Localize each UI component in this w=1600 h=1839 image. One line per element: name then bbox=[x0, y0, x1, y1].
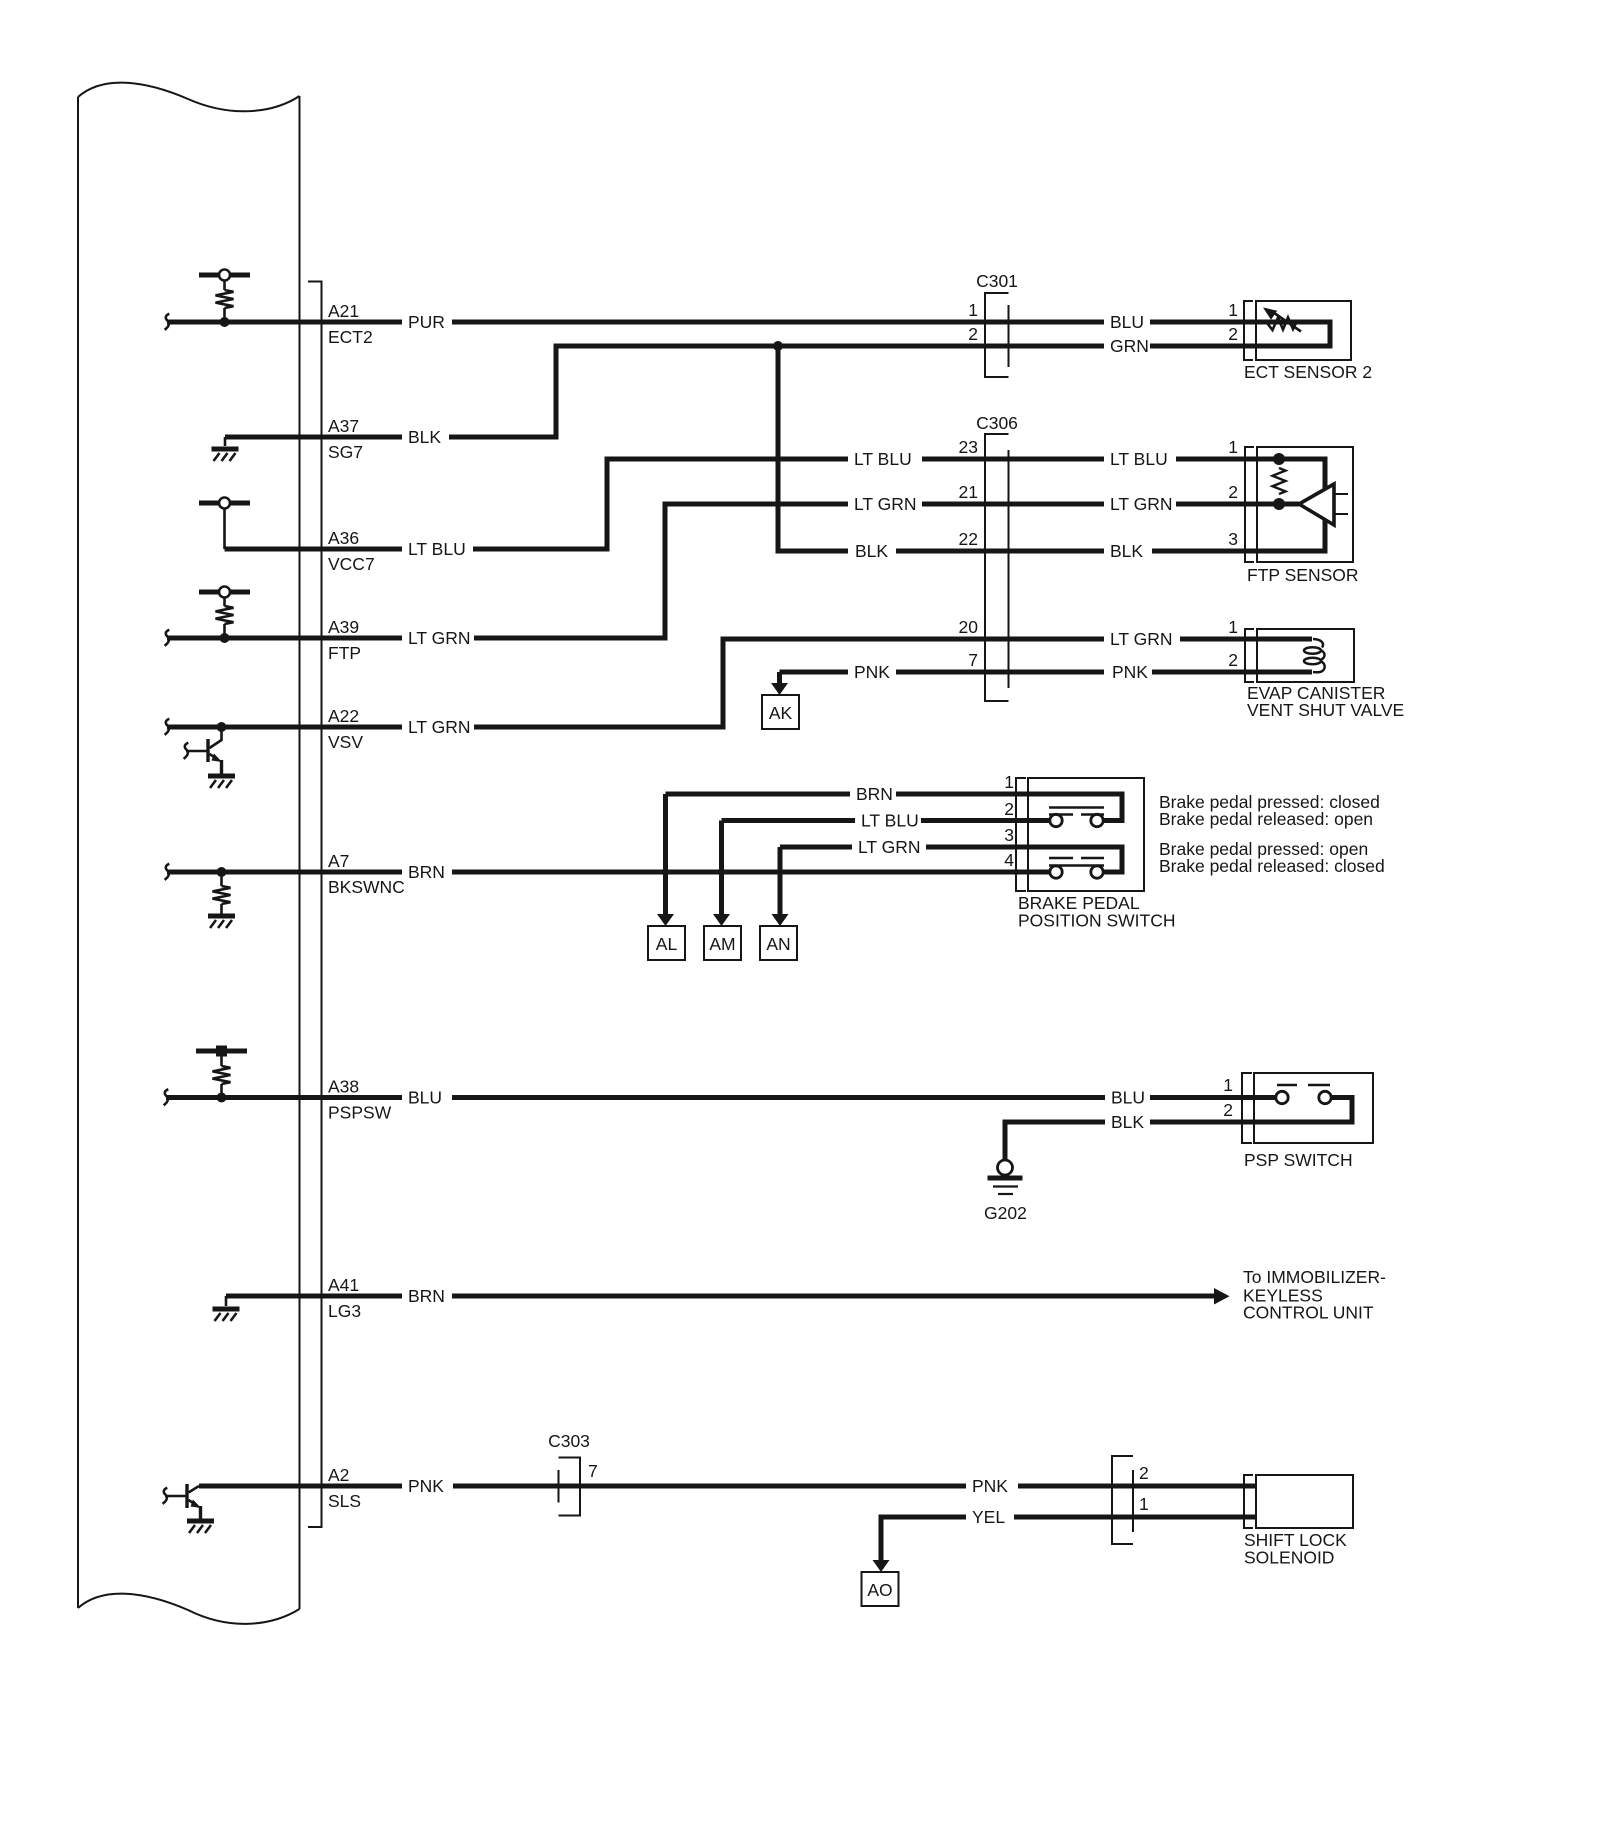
svg-text:C301: C301 bbox=[976, 271, 1018, 291]
svg-text:POSITION SWITCH: POSITION SWITCH bbox=[1018, 911, 1176, 931]
wire PNK: C306 pin 7 to reference AK; and EVAP valve pin 2 bbox=[780, 670, 1257, 675]
svg-text:2: 2 bbox=[1139, 1463, 1149, 1483]
svg-text:LT BLU: LT BLU bbox=[408, 539, 466, 559]
svg-text:BLU: BLU bbox=[1110, 312, 1144, 332]
svg-text:2: 2 bbox=[1228, 650, 1238, 670]
svg-text:PSP SWITCH: PSP SWITCH bbox=[1244, 1150, 1353, 1170]
svg-text:VSV: VSV bbox=[328, 732, 363, 752]
wire A21 PUR: ECM A21 to C301 pin 1 bbox=[167, 320, 1256, 325]
ground (A2 emitter) bbox=[187, 1521, 214, 1533]
svg-text:PNK: PNK bbox=[854, 662, 890, 682]
svg-text:C306: C306 bbox=[976, 413, 1018, 433]
svg-text:VENT SHUT VALVE: VENT SHUT VALVE bbox=[1247, 700, 1404, 720]
svg-text:Brake pedal released: open: Brake pedal released: open bbox=[1159, 809, 1373, 829]
wire LT GRN: brake switch pin 3 to reference AN bbox=[780, 845, 1028, 850]
svg-text:2: 2 bbox=[1228, 482, 1238, 502]
svg-text:SG7: SG7 bbox=[328, 442, 363, 462]
wire GRN: junction to C301 pin 2 and on to ECT sensor pin 2 bbox=[778, 344, 1256, 349]
arrow down to AN bbox=[772, 847, 789, 926]
svg-text:3: 3 bbox=[1004, 825, 1014, 845]
continuation squiggle A22 wire end bbox=[165, 719, 170, 735]
ECM pin A21/ECT2 label bbox=[328, 301, 373, 347]
svg-text:Brake pedal released: closed: Brake pedal released: closed bbox=[1159, 856, 1385, 876]
svg-text:YEL: YEL bbox=[972, 1507, 1005, 1527]
continuation squiggle A7 wire end bbox=[165, 864, 170, 880]
ground G202 bbox=[988, 1160, 1023, 1194]
svg-text:LT GRN: LT GRN bbox=[1110, 629, 1173, 649]
svg-text:2: 2 bbox=[968, 324, 978, 344]
ECM connector pin-header bracket bbox=[308, 282, 322, 1528]
svg-text:BKSWNC: BKSWNC bbox=[328, 877, 405, 897]
svg-text:BLU: BLU bbox=[408, 1088, 442, 1108]
svg-text:PNK: PNK bbox=[408, 1476, 444, 1496]
svg-text:1: 1 bbox=[1228, 437, 1238, 457]
svg-text:BLK: BLK bbox=[1110, 541, 1143, 561]
svg-text:BLK: BLK bbox=[855, 541, 888, 561]
continuation squiggle A38 wire end bbox=[164, 1089, 169, 1105]
svg-text:A38: A38 bbox=[328, 1077, 359, 1097]
svg-text:A37: A37 bbox=[328, 416, 359, 436]
svg-text:SLS: SLS bbox=[328, 1491, 361, 1511]
svg-text:21: 21 bbox=[959, 482, 978, 502]
ground symbol at pin A37 bbox=[224, 437, 227, 446]
svg-text:1: 1 bbox=[1228, 300, 1238, 320]
svg-text:GRN: GRN bbox=[1110, 336, 1149, 356]
svg-text:AN: AN bbox=[766, 934, 790, 954]
svg-text:A7: A7 bbox=[328, 851, 349, 871]
arrow down to AL bbox=[657, 794, 674, 926]
junction dot A22 bbox=[217, 722, 227, 732]
PSP SWITCH bbox=[1242, 1073, 1373, 1143]
svg-text:BLU: BLU bbox=[1111, 1088, 1145, 1108]
svg-text:BRN: BRN bbox=[408, 1286, 445, 1306]
wire A36 LT BLU: ECM A36 to C306 pin 23 and FTP sensor pin 1 bbox=[225, 459, 1257, 549]
transistor Q (driver) at pin A22 bbox=[186, 727, 222, 774]
junction dot A7 bbox=[217, 867, 227, 877]
svg-text:VCC7: VCC7 bbox=[328, 554, 375, 574]
svg-text:20: 20 bbox=[959, 617, 979, 637]
wire BLK: junction down to C306 pin 22 and on to FTP sensor pin 3 bbox=[778, 346, 1256, 551]
svg-text:A41: A41 bbox=[328, 1275, 359, 1295]
resistor at pin A21 bbox=[216, 281, 234, 319]
node AM (off-page reference) bbox=[704, 926, 741, 960]
svg-text:BLK: BLK bbox=[408, 427, 441, 447]
arrow down to AM bbox=[713, 821, 730, 927]
svg-text:23: 23 bbox=[959, 437, 978, 457]
ECM/PCM module box (torn-edge outline) bbox=[78, 83, 300, 1624]
svg-text:1: 1 bbox=[1004, 772, 1014, 792]
svg-text:A2: A2 bbox=[328, 1465, 349, 1485]
node AL (off-page reference) bbox=[648, 926, 685, 960]
junction dot A38 bbox=[217, 1093, 227, 1103]
svg-text:AO: AO bbox=[867, 1580, 892, 1600]
node AK (off-page reference) bbox=[762, 695, 799, 729]
continuation squiggle at Q base (A2) bbox=[163, 1488, 168, 1504]
svg-text:G202: G202 bbox=[984, 1203, 1027, 1223]
ECM pin A38/PSPSW label bbox=[328, 1077, 392, 1123]
svg-text:FTP: FTP bbox=[328, 643, 361, 663]
svg-text:CONTROL UNIT: CONTROL UNIT bbox=[1243, 1303, 1374, 1323]
svg-text:4: 4 bbox=[1004, 850, 1014, 870]
BRAKE PEDAL POSITION SWITCH bbox=[1016, 778, 1144, 891]
svg-text:AL: AL bbox=[656, 934, 678, 954]
svg-text:LT GRN: LT GRN bbox=[408, 717, 471, 737]
svg-text:BRN: BRN bbox=[408, 862, 445, 882]
svg-text:7: 7 bbox=[968, 650, 978, 670]
wire A7 BRN: ECM A7 to brake pedal position switch pin 4 bbox=[167, 870, 1028, 875]
transistor Q (driver) at pin A2 bbox=[165, 1484, 201, 1519]
svg-text:SOLENOID: SOLENOID bbox=[1244, 1548, 1334, 1568]
EVAP CANISTER VENT SHUT VALVE (solenoid coil) bbox=[1245, 629, 1354, 682]
svg-text:22: 22 bbox=[959, 529, 978, 549]
wire A37 BLK: ECM A37 up to GRN row bbox=[225, 346, 780, 437]
svg-text:LT GRN: LT GRN bbox=[408, 628, 471, 648]
svg-text:1: 1 bbox=[1139, 1494, 1149, 1514]
svg-text:A36: A36 bbox=[328, 528, 359, 548]
ground (A22 emitter) bbox=[208, 776, 235, 788]
svg-text:To IMMOBILIZER-: To IMMOBILIZER- bbox=[1243, 1267, 1386, 1287]
pull-up supply for pin A39 (bar with open circle) bbox=[199, 587, 250, 598]
svg-text:LT BLU: LT BLU bbox=[861, 811, 919, 831]
svg-text:2: 2 bbox=[1223, 1100, 1233, 1120]
svg-text:LG3: LG3 bbox=[328, 1301, 361, 1321]
svg-text:ECT2: ECT2 bbox=[328, 327, 373, 347]
wire YEL: solenoid connector pin 1 to reference AO bbox=[881, 1517, 1256, 1562]
svg-text:PUR: PUR bbox=[408, 312, 445, 332]
wire BRN: brake switch pin 1 to reference AL bbox=[666, 792, 1029, 797]
ECM pin A36/VCC7 label bbox=[328, 528, 375, 574]
arrow down to AO bbox=[873, 1560, 890, 1572]
svg-text:AK: AK bbox=[769, 703, 793, 723]
svg-text:1: 1 bbox=[968, 300, 978, 320]
resistor at pin A38 bbox=[213, 1057, 231, 1094]
svg-text:LT GRN: LT GRN bbox=[858, 837, 921, 857]
ECM pin A39/FTP label bbox=[328, 617, 361, 663]
junction dot A39 bbox=[220, 633, 230, 643]
wire A39 LT GRN: ECM A39 to C306 pin 21 and FTP sensor pin 2 bbox=[167, 504, 1256, 638]
svg-text:PNK: PNK bbox=[972, 1476, 1008, 1496]
ECM pin A37/SG7 label bbox=[328, 416, 363, 462]
svg-text:A21: A21 bbox=[328, 301, 359, 321]
resistor at pin A39 bbox=[216, 598, 234, 635]
svg-text:LT BLU: LT BLU bbox=[854, 449, 912, 469]
FTP SENSOR bbox=[1245, 447, 1353, 562]
ECM pin A2/SLS label bbox=[328, 1465, 361, 1511]
supply for pin A36 (bar with open circle) bbox=[199, 498, 250, 550]
ground (SG7) bbox=[212, 449, 239, 461]
ECT SENSOR 2 bbox=[1244, 301, 1351, 360]
continuation squiggle at Q base (A22) bbox=[184, 743, 189, 759]
arrow right to immobilizer bbox=[1214, 1288, 1230, 1305]
svg-text:LT BLU: LT BLU bbox=[1110, 449, 1168, 469]
wire A38 BLU: ECM A38 to PSP switch pin 1 bbox=[166, 1095, 1254, 1100]
svg-text:BLK: BLK bbox=[1111, 1112, 1144, 1132]
svg-text:A39: A39 bbox=[328, 617, 359, 637]
svg-text:7: 7 bbox=[588, 1461, 598, 1481]
ground (LG3) bbox=[213, 1309, 240, 1321]
connector C301 bbox=[976, 271, 1018, 377]
ground symbol at pin A41 bbox=[225, 1296, 228, 1306]
ECM pin A7/BKSWNC label bbox=[328, 851, 405, 897]
svg-text:2: 2 bbox=[1004, 799, 1014, 819]
svg-text:PNK: PNK bbox=[1112, 662, 1148, 682]
supply for pin A38 (bar with filled square) bbox=[196, 1046, 247, 1057]
node AN (off-page reference) bbox=[760, 926, 797, 960]
svg-text:A22: A22 bbox=[328, 706, 359, 726]
svg-text:PSPSW: PSPSW bbox=[328, 1103, 392, 1123]
continuation squiggle A21 wire end bbox=[165, 314, 170, 330]
wire LT BLU: brake switch pin 2 to reference AM bbox=[722, 818, 1029, 823]
svg-text:2: 2 bbox=[1228, 324, 1238, 344]
svg-text:3: 3 bbox=[1228, 529, 1238, 549]
svg-text:LT GRN: LT GRN bbox=[1110, 494, 1173, 514]
ECM pin A22/VSV label bbox=[328, 706, 363, 752]
connector C303 bbox=[548, 1431, 590, 1516]
wire A2 PNK: ECM A2 through C303 to shift lock solenoid pin 2 bbox=[199, 1484, 1256, 1489]
svg-text:ECT SENSOR 2: ECT SENSOR 2 bbox=[1244, 362, 1372, 382]
pull-up supply for pin A21 (bar with open circle) bbox=[199, 270, 250, 281]
svg-text:BRN: BRN bbox=[856, 784, 893, 804]
node: junction GRN/BLK wires bbox=[773, 341, 783, 351]
svg-text:C303: C303 bbox=[548, 1431, 590, 1451]
pull-down resistor at pin A7 bbox=[213, 872, 231, 914]
wire A22 LT GRN: ECM A22 to C306 pin 20 and EVAP valve pin 1 bbox=[167, 639, 1256, 727]
ECM pin A41/LG3 label bbox=[328, 1275, 361, 1321]
connector C306 bbox=[976, 413, 1018, 701]
svg-text:1: 1 bbox=[1228, 617, 1238, 637]
ground (A7 resistor) bbox=[208, 916, 235, 928]
svg-text:LT GRN: LT GRN bbox=[854, 494, 917, 514]
svg-text:1: 1 bbox=[1223, 1075, 1233, 1095]
arrow down to AK bbox=[771, 672, 788, 695]
svg-text:AM: AM bbox=[709, 934, 735, 954]
junction dot A21 bbox=[220, 317, 230, 327]
SHIFT LOCK SOLENOID bbox=[1244, 1475, 1353, 1528]
wire BLK: PSP switch pin 2 to ground G202 bbox=[1005, 1122, 1254, 1160]
shift lock solenoid inline connector bbox=[1112, 1456, 1133, 1544]
wire A41 BRN: ECM A41 to immobilizer-keyless control unit bbox=[226, 1294, 1215, 1299]
continuation squiggle A39 wire end bbox=[165, 630, 170, 646]
node AO (off-page reference) bbox=[862, 1572, 899, 1606]
svg-text:FTP SENSOR: FTP SENSOR bbox=[1247, 565, 1359, 585]
